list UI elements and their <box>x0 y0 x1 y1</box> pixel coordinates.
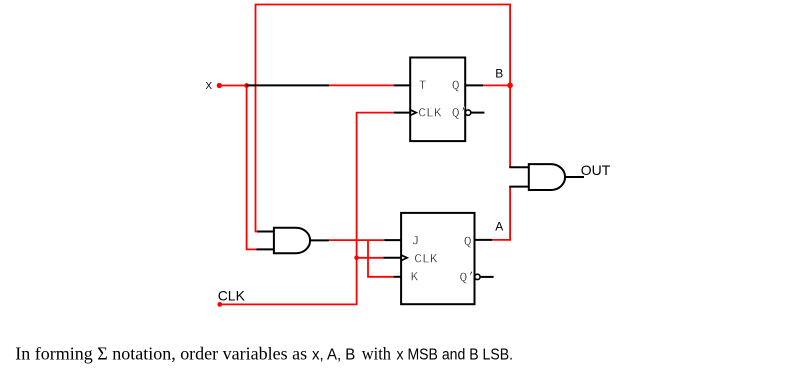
svg-text:J: J <box>411 234 419 249</box>
svg-text:K: K <box>411 270 419 285</box>
svg-text:B: B <box>495 66 503 80</box>
svg-text:Q: Q <box>452 78 460 93</box>
svg-text:CLK: CLK <box>218 287 246 303</box>
svg-text:A: A <box>495 219 503 233</box>
svg-text:T: T <box>419 78 427 93</box>
svg-text:x, A, B: x, A, B <box>312 347 355 364</box>
svg-text:CLK: CLK <box>418 105 442 120</box>
svg-text:In forming Σ notation, order v: In forming Σ notation, order variables a… <box>15 344 307 364</box>
svg-text:OUT: OUT <box>581 162 611 178</box>
svg-text:x MSB and B LSB.: x MSB and B LSB. <box>397 347 514 364</box>
svg-text:Q’: Q’ <box>452 105 468 120</box>
svg-text:CLK: CLK <box>414 252 438 267</box>
svg-text:Q’: Q’ <box>460 270 476 285</box>
svg-text:with: with <box>362 344 391 364</box>
svg-text:Q: Q <box>464 234 472 249</box>
svg-text:X: X <box>205 81 212 92</box>
